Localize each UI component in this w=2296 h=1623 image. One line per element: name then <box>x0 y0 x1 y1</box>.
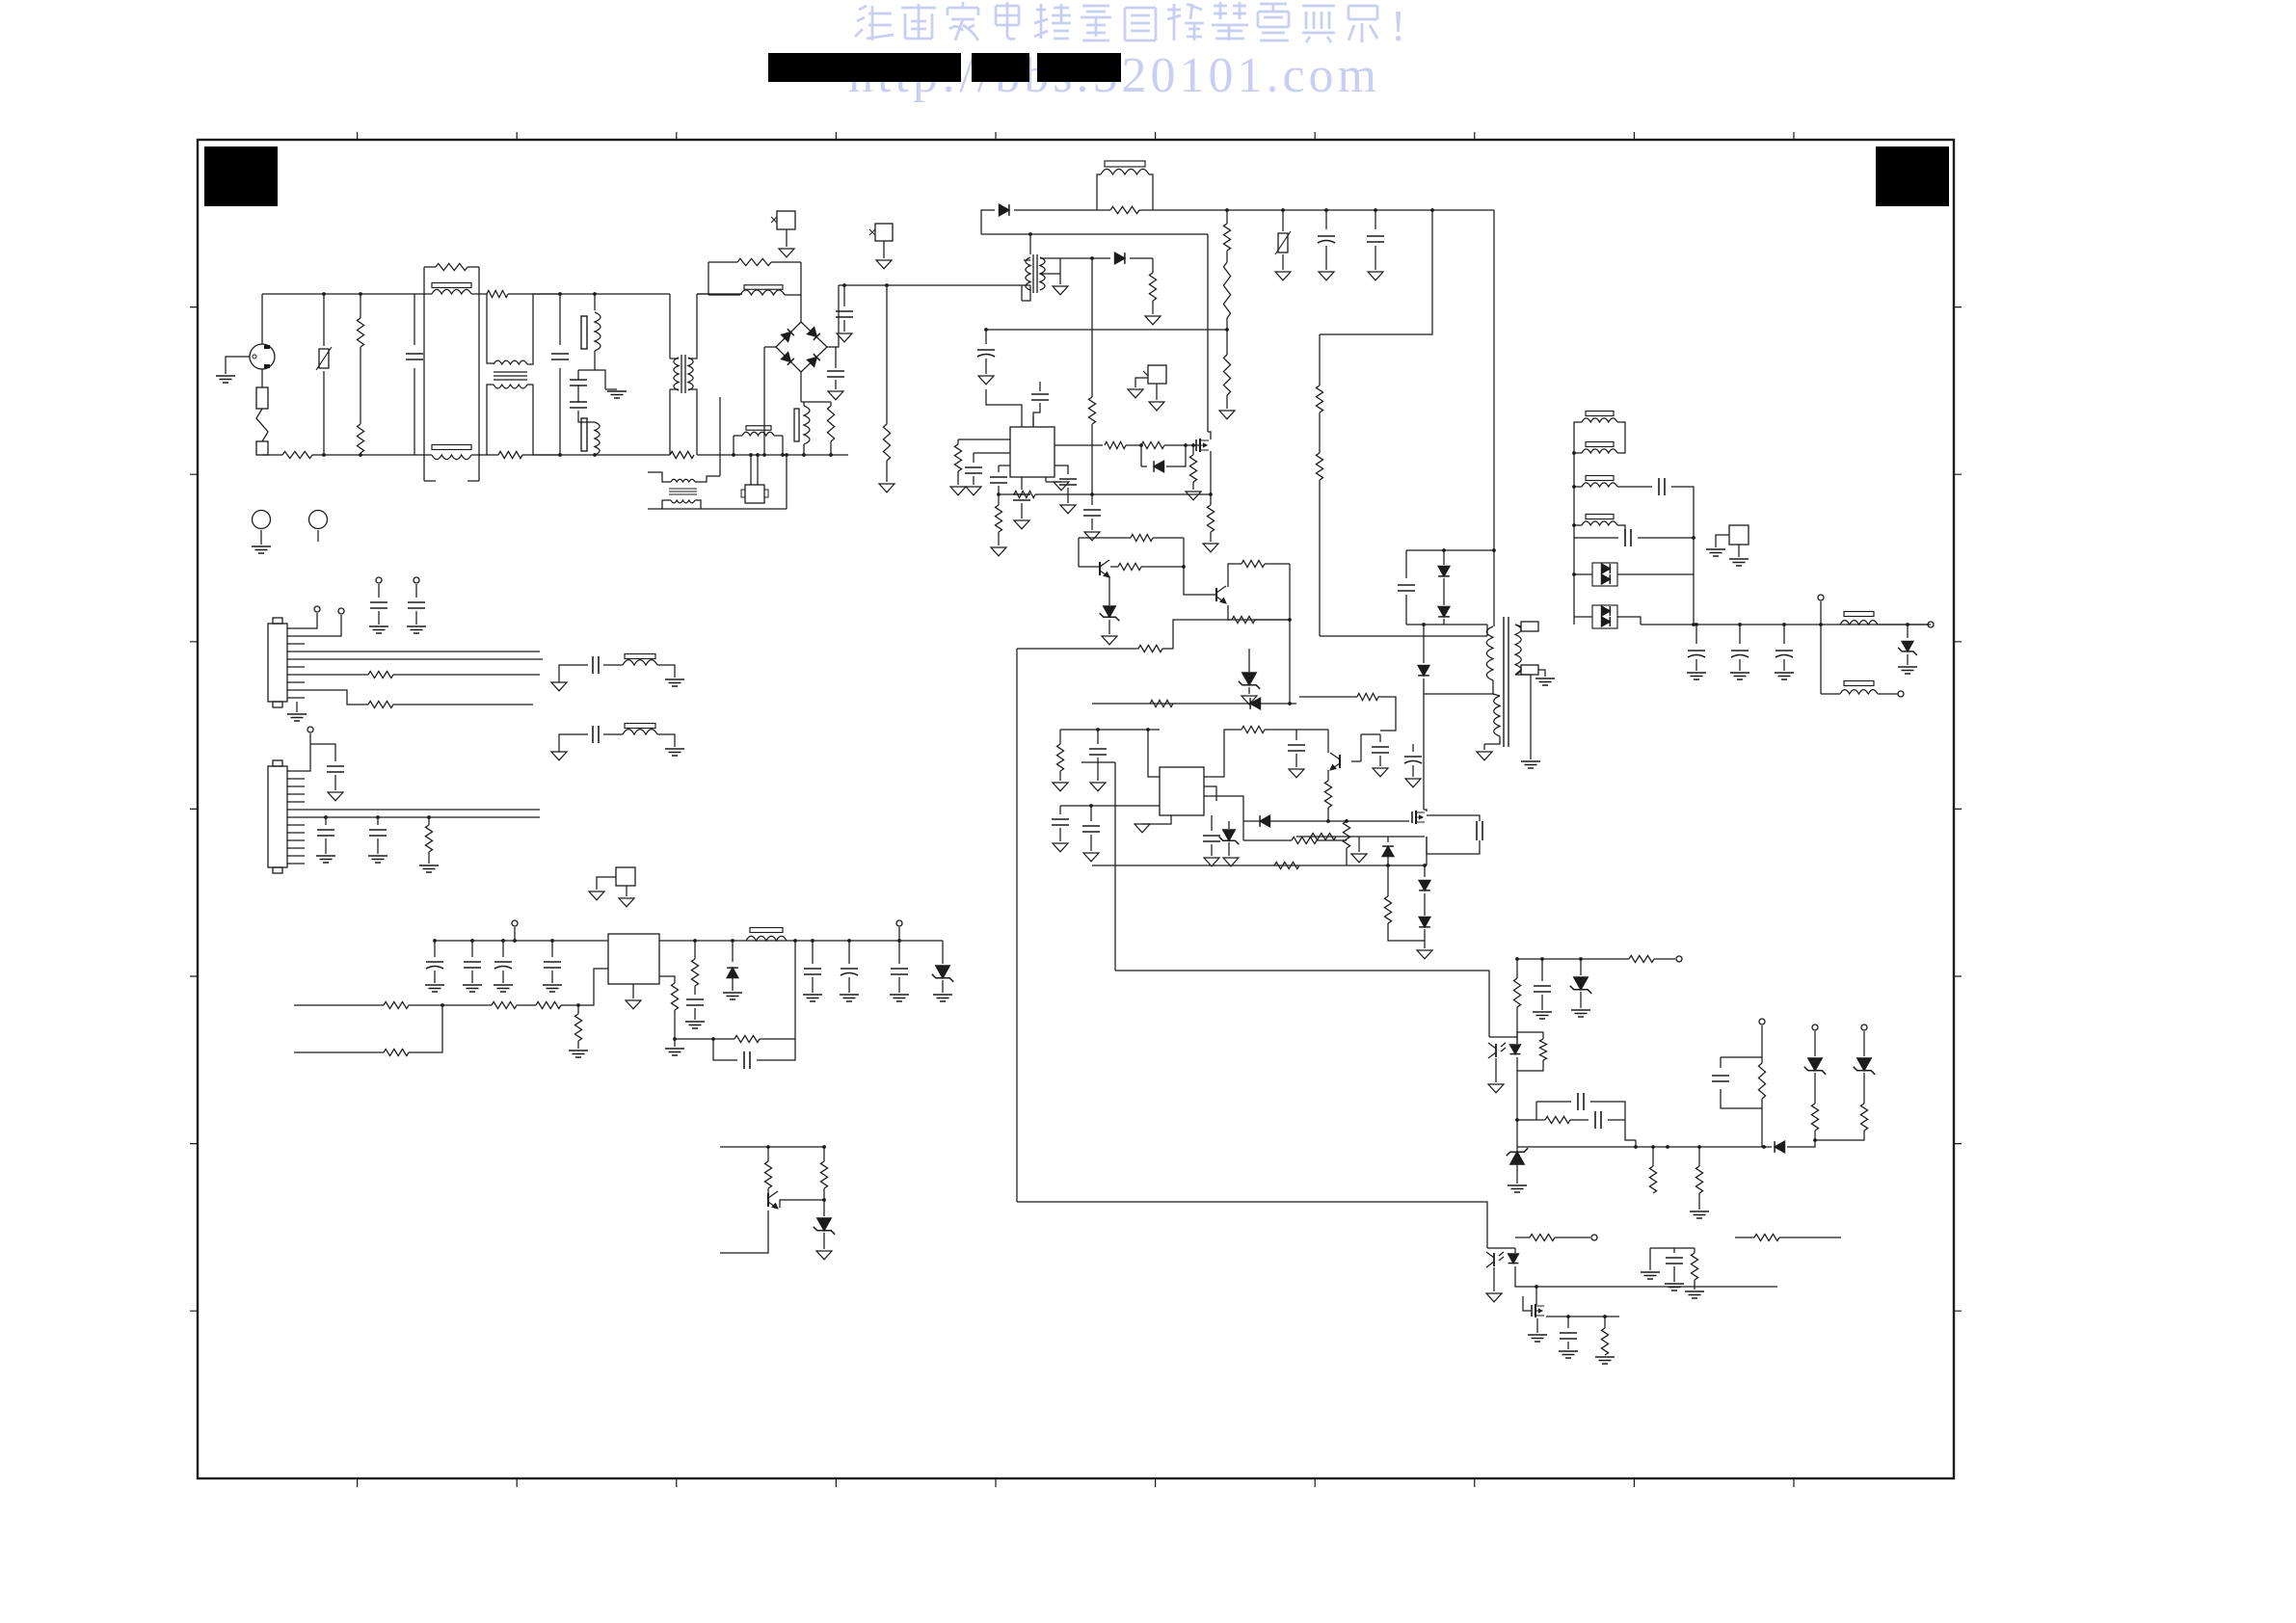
ground earth C935 <box>369 625 388 627</box>
transistor Q902 <box>1099 562 1101 575</box>
resistor R918 <box>1192 445 1194 455</box>
jumper J903 <box>616 867 635 886</box>
ground arrow ZD902 <box>1223 858 1239 866</box>
diode D910 <box>1260 815 1269 827</box>
capacitor C948 <box>713 1039 737 1060</box>
ground arrow R958 <box>879 484 894 492</box>
CN902 pin 2 <box>287 778 305 780</box>
NTC thermistor TH902 <box>1281 208 1285 212</box>
wire HV link <box>839 284 1030 286</box>
clamp diode D906 <box>1438 607 1450 617</box>
zener ZD905 <box>1906 623 1909 626</box>
resistor R946 <box>305 690 368 705</box>
wire T901 sec tail <box>1515 675 1531 759</box>
wire opto2 bus <box>1515 1266 1777 1287</box>
ground arrow J901b <box>1149 402 1164 411</box>
CN901 stub 2 <box>305 615 341 636</box>
diode D914 <box>1775 1141 1784 1153</box>
fuse box F903 <box>875 224 893 241</box>
CN902 pin 11 <box>287 847 305 849</box>
zener ZD902 <box>1228 821 1230 829</box>
ground arrow C909 <box>978 376 994 385</box>
secondary winding W4 <box>1586 515 1614 519</box>
capacitor C904 <box>570 401 587 403</box>
ground arrow C937 <box>328 792 343 801</box>
redaction bar 2 <box>972 53 1029 82</box>
resistor R958 <box>886 285 888 424</box>
wire VCC vertical <box>1091 258 1093 397</box>
diode D902 <box>1000 204 1009 216</box>
T901 pin boxes <box>1521 622 1538 631</box>
gate diode D904 <box>1140 445 1142 466</box>
compensation resistor R914 <box>958 439 1010 440</box>
wire fb resistor <box>1017 648 1138 650</box>
diode chain D909 <box>1419 918 1430 927</box>
ground earth C940 <box>425 984 444 986</box>
wire plug to earth <box>226 357 250 374</box>
resistor R932 <box>1241 726 1265 732</box>
wire bus extension <box>810 454 848 456</box>
ground earth C929 <box>1730 672 1749 674</box>
ground earth ZD905 <box>1898 666 1917 668</box>
ground earth J902a <box>1706 548 1725 550</box>
inductor L902 <box>581 418 587 451</box>
cap C925 <box>1360 734 1362 761</box>
ground arrow U905 <box>632 984 634 998</box>
main transformer T901 secondary <box>1515 625 1521 675</box>
capacitor C947 <box>898 941 900 964</box>
ground earth C944 <box>685 1021 705 1023</box>
ground earth c1 <box>1641 1271 1660 1273</box>
wire y730 bus <box>1092 703 1296 705</box>
wire Q901 source <box>1210 451 1212 494</box>
title block right <box>1876 146 1949 206</box>
snubber resistor R907 <box>1110 206 1139 213</box>
CN902 pin 5 <box>287 801 305 803</box>
resistor R952 <box>384 1049 409 1055</box>
wire bridge bottom <box>800 372 802 402</box>
watermark line 1 <box>855 6 894 40</box>
resistor R950 <box>536 1001 561 1008</box>
terminal OUT1 <box>1928 622 1934 627</box>
resistor R915 <box>995 505 1001 532</box>
capacitor C930 <box>1782 623 1786 626</box>
wire Q901 drain <box>1207 234 1209 432</box>
optocoupler U904 <box>1493 1253 1495 1266</box>
ground arrow C916 <box>1084 532 1100 541</box>
terminal TP4 <box>1591 1235 1597 1240</box>
wire sense line 2 <box>1092 865 1427 866</box>
wire N bus bottom <box>262 454 282 456</box>
zener ZD901 <box>1108 576 1110 605</box>
capacitor C923 <box>1412 744 1414 752</box>
common mode choke LF902 <box>487 294 494 363</box>
bridge rectifier D901 <box>776 322 827 372</box>
CN901 pin 2 <box>287 635 305 637</box>
CN901 pin 10 <box>287 697 305 699</box>
wire degauss bottom <box>648 508 787 510</box>
feedback loop <box>675 1038 713 1040</box>
ground arrow R919 <box>1203 544 1218 552</box>
resistor R913 <box>1088 397 1095 424</box>
CN901 pin 8 <box>287 681 305 683</box>
wire HV rail <box>981 210 995 234</box>
capacitor C928 <box>1695 623 1698 626</box>
wire U902 vcc <box>1060 729 1160 731</box>
capacitor C935 <box>376 577 382 583</box>
CN902 pin 3 <box>287 785 305 787</box>
resistor R922 <box>1110 566 1118 568</box>
wire fb to opto1 <box>1115 971 1489 1037</box>
zener ZD906 <box>1579 957 1583 961</box>
degauss coil loop <box>733 436 734 455</box>
capacitor C913 <box>1021 477 1023 490</box>
zener branch 2 <box>1861 1024 1867 1030</box>
terminal buck out <box>898 927 900 941</box>
resistor R935 <box>1629 955 1654 962</box>
CN902 pin 7 <box>287 816 305 818</box>
ground arrow C906 <box>828 391 843 400</box>
T901 aux winding <box>1494 696 1500 736</box>
zener ZD909 <box>823 1200 825 1216</box>
resistor R944 <box>1754 1234 1779 1240</box>
resistor R957A <box>737 258 771 265</box>
capacitor C901 <box>414 294 415 345</box>
varistor RV901 <box>323 294 325 346</box>
snubber coil L908 <box>744 285 783 290</box>
winding bus left <box>1574 422 1582 625</box>
resistor R926B <box>1311 833 1336 839</box>
wire gate line <box>1055 444 1103 446</box>
zener ZD904 <box>1248 669 1250 675</box>
output inductor L906 <box>1844 681 1874 686</box>
diode D915 <box>732 941 734 962</box>
pwm controller U901 <box>1010 427 1055 477</box>
capacitor C917 <box>1405 550 1407 578</box>
zener ZD908 <box>942 941 944 964</box>
diode D907 <box>1423 625 1425 663</box>
capacitor C902 <box>559 294 561 345</box>
capacitor C939 <box>377 817 379 825</box>
resistor R931 <box>1327 770 1329 781</box>
secondary winding W2 <box>1586 442 1614 447</box>
ground earth R955 <box>665 1048 684 1050</box>
CN901 pin 1 <box>287 627 305 629</box>
resistor R955 <box>659 976 675 983</box>
ground arrow C919 <box>1053 843 1068 852</box>
ground earth ZD908 <box>933 994 952 996</box>
wire rail elbow to divider <box>1430 208 1434 212</box>
ground arrow aux <box>1053 286 1068 295</box>
ground arrow U901a <box>1045 477 1047 482</box>
connector CN902 <box>268 766 287 867</box>
wire aux diode line <box>1090 256 1094 260</box>
capacitor C910 <box>1032 416 1034 427</box>
secondary winding W3 <box>1586 476 1614 481</box>
CN901 pin 7 <box>287 674 305 676</box>
clamp network top <box>1406 549 1494 551</box>
CN901 stub 1 <box>305 613 317 628</box>
CN902 pin 10 <box>287 839 305 841</box>
ground earth Q906 <box>1528 1334 1547 1336</box>
ground earth C941 <box>463 984 482 986</box>
resistor R943 <box>1694 1248 1695 1253</box>
output inductor L905 <box>1844 612 1874 617</box>
resistor R904 <box>487 290 508 297</box>
ground earth CN901 <box>296 702 298 712</box>
winding bus right <box>1617 422 1625 453</box>
output rail <box>1641 624 1931 625</box>
wire U902 drive <box>1204 796 1243 821</box>
ground earth T901 <box>1538 670 1545 677</box>
rectifier diodes D913 <box>1592 605 1617 628</box>
resistor R957 <box>823 1147 825 1161</box>
resistor R901 <box>282 451 312 458</box>
capacitor C945 <box>812 941 814 964</box>
capacitor C946 <box>848 941 850 964</box>
main transformer T901 core <box>1504 617 1508 747</box>
optocoupler U903 <box>1495 1044 1497 1057</box>
zener branch 1 <box>1812 1024 1818 1030</box>
title block left <box>204 146 278 206</box>
ground arrow R912 <box>1145 316 1161 325</box>
resistor R905 <box>498 451 522 458</box>
capacitor C926 <box>1617 486 1652 488</box>
ground earth C942 <box>494 984 513 986</box>
ground earth C930 <box>1775 672 1794 674</box>
ground earth EMI <box>605 388 617 390</box>
filter pair 1 <box>551 682 567 691</box>
resistor R953 <box>694 941 696 959</box>
buck regulator U905 <box>608 934 659 984</box>
snubber inductor L904 <box>1105 161 1145 167</box>
wire Q904 source <box>1426 837 1428 865</box>
snubber box Q904 <box>1427 815 1480 821</box>
wire L bus top <box>262 293 424 295</box>
ground earth C945 <box>803 994 822 996</box>
ground arrow opto1 <box>1495 1058 1497 1082</box>
wire bridge right leg <box>827 347 836 368</box>
ground arrow U902 <box>1157 815 1171 824</box>
wire to primary <box>1320 635 1487 637</box>
buck output rail <box>659 940 943 942</box>
AC inlet plug P1 <box>250 344 275 369</box>
capacitor C918 <box>1097 730 1099 744</box>
capacitor C907 <box>1324 208 1328 212</box>
capacitor C908 <box>1374 208 1377 212</box>
ground earth fp2 <box>665 748 684 750</box>
zener ZD903 <box>1296 729 1328 731</box>
ground arrow J903b <box>619 898 634 907</box>
capacitor C909 <box>985 330 987 344</box>
ground earth C938 <box>316 855 335 857</box>
ground arrow C918 <box>1090 783 1106 791</box>
wire buck input rail <box>434 940 608 942</box>
wire Q906 source <box>1536 1318 1538 1333</box>
capacitor C940 <box>434 941 436 957</box>
top right rc cluster <box>1649 1248 1651 1270</box>
wire Q907 emitter <box>720 1211 768 1253</box>
capacitor C938 <box>325 817 327 825</box>
CN901 line pair <box>305 651 540 652</box>
wire feedback chain <box>1204 786 1216 801</box>
ground earth ZD906 <box>1571 1009 1590 1011</box>
capacitor C911 <box>974 452 1010 454</box>
wire opto1 down <box>1516 1071 1518 1147</box>
ground earth T901 tail <box>1521 760 1540 762</box>
resistor R956 <box>767 1147 769 1161</box>
long rail x1157 <box>1114 762 1116 971</box>
capacitor C942 <box>502 941 504 957</box>
ground earth R947 <box>419 865 439 866</box>
wire opto2 out <box>1515 1237 1530 1238</box>
line filter LF901 <box>424 293 432 295</box>
wire aux sense <box>1296 836 1425 838</box>
terminal TP1 <box>1818 595 1824 600</box>
capacitor C921 <box>1211 815 1213 831</box>
terminal TP2 <box>1676 956 1682 962</box>
ground arrow ZD909 <box>816 1251 832 1260</box>
T902 wiring <box>648 472 671 482</box>
ground earth ZD907 <box>1508 1184 1527 1186</box>
CN902 line pair <box>305 809 540 811</box>
resistor R933 <box>1150 700 1173 706</box>
resistor R927 <box>1387 865 1389 896</box>
transistor Q903 <box>1215 588 1217 601</box>
terminal OUT2 <box>1898 691 1904 697</box>
ground arrow C920 <box>1083 853 1099 862</box>
filter pair 2 <box>551 752 567 760</box>
ground earth R942 <box>1595 1356 1615 1358</box>
wire sense to zeners <box>1787 1140 1815 1147</box>
startup resistor chain R908 <box>1225 208 1229 212</box>
resistor R903 <box>357 424 363 453</box>
resistor R937 <box>1517 1119 1545 1121</box>
ground earth C947 <box>890 994 909 996</box>
clamp diode D905 <box>1443 550 1445 565</box>
common mode choke LF903 <box>560 293 670 295</box>
ground earth C939 <box>368 855 387 857</box>
resistor R928 <box>1242 821 1244 840</box>
ground arrow ZD901 <box>1102 636 1117 645</box>
terminal TP3 <box>1759 1019 1765 1024</box>
diode chain D908 <box>1423 864 1427 867</box>
ground earth C928 <box>1687 672 1706 674</box>
resistor R926 <box>1274 862 1299 868</box>
resistor R941 <box>1530 1234 1555 1240</box>
capacitor C903 <box>594 351 596 370</box>
wire HV sub-rail <box>981 233 1208 235</box>
resistor R920 <box>1014 491 1035 497</box>
capacitor C919 <box>1059 806 1061 814</box>
resistor R939 <box>1698 1147 1700 1166</box>
test point E1 <box>253 511 271 529</box>
capacitor C906 <box>827 370 844 372</box>
ground arrow J901a <box>1128 389 1143 398</box>
resistor R929 <box>1346 819 1348 821</box>
resistor R934 <box>1539 1039 1546 1060</box>
capacitor C922 <box>1379 734 1381 742</box>
ground earth C946 <box>840 994 859 996</box>
wire Q907 wiring <box>780 1200 824 1208</box>
ground earth C943 <box>543 984 562 986</box>
ground arrow R918 <box>1186 492 1201 500</box>
ground arrow R914 <box>950 487 966 495</box>
capacitor C932 <box>1570 1119 1589 1121</box>
ground earth C934 <box>1665 1283 1684 1285</box>
transistor Q907 <box>767 1193 769 1207</box>
resistor R923 <box>1241 560 1265 567</box>
ground earth R951 <box>569 1050 588 1051</box>
resistor R954 <box>713 1038 734 1040</box>
ground earth R943 <box>1685 1290 1704 1292</box>
resistor R959 <box>670 451 694 458</box>
wire VCC line <box>986 329 1227 331</box>
ground earth fp1 <box>665 678 684 680</box>
ground arrow R915 <box>991 547 1006 556</box>
wire divider join <box>1289 564 1291 636</box>
inductor L901 <box>594 294 596 310</box>
mosfet Q906 <box>1531 1305 1533 1317</box>
test point E2 <box>309 511 328 529</box>
feedback network caps <box>1536 1102 1625 1120</box>
resistor R945 <box>305 674 368 676</box>
secondary winding W1 <box>1586 412 1614 416</box>
redaction bar 1 <box>768 53 961 82</box>
CN902 pin 4 <box>287 793 305 795</box>
wire U901 top <box>986 389 1022 427</box>
degauss connector CN903 <box>750 455 752 485</box>
ground arrow sense <box>1358 837 1360 852</box>
resistor R911 <box>1319 412 1321 453</box>
capacitor C912 <box>999 465 1010 466</box>
connector CN901 <box>268 624 287 702</box>
ground arrow R909 <box>1219 411 1235 419</box>
aux transformer T903 <box>1032 254 1034 293</box>
resistor R960 <box>1299 696 1357 698</box>
ground earth plug <box>216 375 235 377</box>
transistor Q905 <box>1339 755 1341 768</box>
capacitor C936 <box>414 577 419 583</box>
resistor R947 <box>428 817 430 825</box>
degauss snubber loop <box>697 293 708 295</box>
capacitor C914 <box>1055 466 1068 474</box>
ground earth C931 <box>1533 1011 1552 1013</box>
ground arrow C914 <box>1060 505 1076 514</box>
capacitor C941 <box>471 941 473 957</box>
resistor R921 <box>1131 534 1153 541</box>
capacitor C943 <box>551 941 553 957</box>
ground arrow T901 aux <box>1483 744 1485 750</box>
capacitor C933 <box>1567 1317 1569 1328</box>
CN902 pin 12 <box>287 855 305 857</box>
mosfet Q904 <box>1411 811 1413 823</box>
wire Q906 drain line <box>1546 1316 1619 1317</box>
degauss transformer T902 <box>671 479 695 482</box>
fuse box F902 <box>777 211 795 229</box>
mosfet Q901 <box>1195 439 1197 451</box>
fuse F1 <box>261 369 263 387</box>
wire error line <box>1078 538 1080 567</box>
driver cluster link <box>1289 636 1291 704</box>
ground arrow ZD904 <box>1241 696 1257 705</box>
svg-text:!: ! <box>1391 1 1405 50</box>
CN901 pin 6 <box>287 666 305 668</box>
wire HV to transformer <box>1493 210 1495 621</box>
ground arrow C913 <box>1014 520 1029 529</box>
resistor R940 <box>1758 1063 1765 1099</box>
wire loop to bridge <box>800 262 802 322</box>
